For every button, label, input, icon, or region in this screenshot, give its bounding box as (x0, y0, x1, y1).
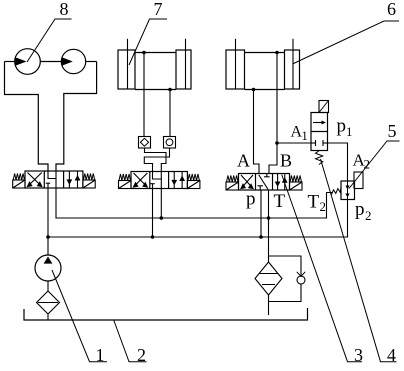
junction dot cylinder 7 top (142, 51, 146, 55)
wire T return bus (56, 188, 332, 218)
relief valve R5 internal flow line with arrowheads (347, 181, 349, 200)
label 8 leader (27, 19, 72, 62)
cylinder 7 right barrel (176, 50, 191, 89)
cylinder 6 left barrel (226, 50, 245, 89)
valve V3 left square crossed-flow X with arrowheads (241, 175, 253, 189)
pump P1 (item 1) (35, 255, 61, 281)
valve V1 left square crossed-flow X with arrowheads (28, 173, 42, 187)
cylinder 7 left piston rod (127, 39, 129, 50)
manifold right branch down to valve port B (56, 62, 97, 172)
svg-text:2: 2 (137, 345, 146, 365)
svg-text:p: p (337, 116, 347, 137)
wire A1 port (277, 142, 311, 144)
svg-text:4: 4 (387, 345, 396, 365)
valve V1 body (three position squares) (25, 171, 83, 188)
wire P pressure bus (48, 188, 348, 237)
valve V2 T line (160, 189, 162, 219)
wire cylinder 6 top header (245, 52, 285, 54)
wire between motors (40, 61, 61, 63)
svg-text:6: 6 (387, 0, 396, 19)
junction dot V3 T (267, 216, 271, 220)
label 4 leader (321, 159, 397, 362)
pilot check valve right (square with circle) (164, 137, 176, 149)
valve V1 left solenoid box (13, 180, 25, 188)
svg-text:B: B (280, 151, 292, 171)
wire filter outlet to tank (268, 295, 270, 315)
wire pump suction (47, 281, 49, 291)
wire strainer to tank (47, 314, 49, 320)
unloading valve U4 top square flow arrow (313, 122, 325, 124)
svg-text:p: p (246, 189, 256, 210)
svg-text:p: p (355, 199, 365, 220)
relief valve R5 pilot box (354, 172, 363, 189)
label 1 leader (52, 270, 107, 362)
tank (open reservoir) (24, 308, 308, 320)
valve V1 left return spring (13, 174, 24, 181)
return filter (diamond with strainer lines) (255, 262, 282, 295)
cylinder 6 left piston rod (235, 39, 237, 50)
wire filter bypass top (269, 256, 302, 276)
valve V3 T line down to filter (268, 190, 270, 262)
label 5 leader (through pilot box) (349, 141, 400, 189)
wire left check valve to valve port B (cross-over) (145, 148, 167, 172)
valve V3 P line (260, 190, 262, 237)
junction dot pump P (46, 235, 50, 239)
junction dot B-line to unloading valve A1 (275, 141, 279, 145)
label 7 leader (129, 19, 167, 65)
valve V2 body (three position squares) (131, 172, 187, 189)
wire cylinder 6 bottom header (245, 89, 285, 91)
unloading valve U4 body two positions (311, 113, 328, 151)
svg-text:A: A (237, 151, 250, 171)
valve V2 P line (152, 189, 154, 238)
valve V3 right solenoid box (290, 182, 303, 190)
valve V1 right square parallel flow lines with arrowheads (67, 171, 79, 188)
valve V2 right return spring (188, 174, 200, 181)
svg-text:2: 2 (365, 208, 372, 223)
valve V2 middle square Y-centre (A,B to T; P blocked) (150, 172, 161, 189)
valve V2 right square parallel flow lines with arrowheads (172, 172, 184, 189)
cylinder 7 left barrel (118, 50, 135, 89)
valve V3 middle square closed-centre blocked ports (257, 174, 269, 191)
svg-text:1: 1 (96, 345, 105, 365)
valve V2 left solenoid box (119, 181, 132, 189)
valve V3 right square parallel flow lines with arrowheads (276, 174, 287, 191)
wire pump outlet (47, 237, 49, 255)
label 6 leader (293, 21, 400, 64)
label 2 leader (114, 320, 147, 362)
wire motor-left to manifold (5, 61, 15, 63)
cylinder 7 right piston rod (185, 39, 187, 50)
label 3 leader (282, 175, 362, 362)
valve V3 left return spring (227, 176, 239, 183)
wire cyl7 cap-side line down (169, 90, 171, 137)
valve V3 left solenoid box (226, 182, 239, 190)
valve V1 middle square Y-centre (A,B to T; P blocked) (46, 171, 56, 188)
wire cyl6 rod-side (B) line down (269, 53, 277, 174)
cylinder 6 right piston rod (292, 39, 294, 50)
junction dot cylinder 6 top (275, 51, 279, 55)
junction dot V2 P (151, 235, 155, 239)
pilot check valve left (square with diamond) (139, 137, 151, 149)
wire cyl7 rod-side line down (143, 53, 145, 137)
valve V2 left return spring (119, 174, 131, 181)
relief valve R5 square (341, 181, 355, 200)
svg-text:5: 5 (388, 121, 397, 141)
suction strainer (diamond) (37, 291, 60, 314)
svg-text:1: 1 (346, 124, 353, 139)
svg-text:1: 1 (302, 129, 308, 143)
svg-text:7: 7 (154, 0, 163, 19)
bypass check valve (circle in V seat) (297, 276, 305, 284)
wire motor-right to manifold (86, 61, 97, 63)
junction dot cylinder 7 bottom (168, 88, 172, 92)
junction dot V2 T (160, 216, 164, 220)
cylinder 6 right barrel (285, 50, 300, 89)
svg-text:2: 2 (320, 199, 327, 214)
valve V2 left square crossed-flow X with arrowheads (134, 173, 148, 187)
wire right check valve to valve port A (cross-over) (144, 148, 169, 172)
valve V1 right solenoid box (83, 180, 95, 188)
junction dot V3 P (259, 235, 263, 239)
svg-text:3: 3 (354, 345, 363, 365)
valve V1 right return spring (83, 174, 94, 181)
wire p1 port to relief valve (328, 143, 348, 181)
valve V2 right solenoid box (187, 181, 200, 189)
svg-text:T: T (308, 192, 320, 213)
wire filter bypass bottom (269, 284, 302, 302)
unloading valve U4 bottom square blocked ports (311, 140, 328, 146)
valve V3 body (three position squares) (239, 174, 290, 191)
relief valve R5 spring (left side) (332, 188, 342, 195)
hydraulic motor M left (item 8) (15, 49, 41, 75)
wire cylinder 7 bottom header (135, 89, 176, 91)
wire cyl6 cap-side (A) line down (254, 90, 260, 174)
wire cylinder 7 top header (135, 52, 176, 54)
valve V3 short diagonal mark in middle square (259, 175, 268, 190)
unloading valve U4 spring below (316, 151, 323, 165)
hydraulic motor M right (item 8) (61, 49, 85, 73)
unloading valve U4 solenoid box (319, 101, 329, 113)
junction dot cylinder 6 bottom (252, 88, 256, 92)
valve V3 right return spring (290, 176, 302, 183)
svg-text:8: 8 (60, 0, 69, 19)
svg-text:T: T (274, 191, 286, 212)
manifold left branch down to valve port A (5, 62, 49, 172)
